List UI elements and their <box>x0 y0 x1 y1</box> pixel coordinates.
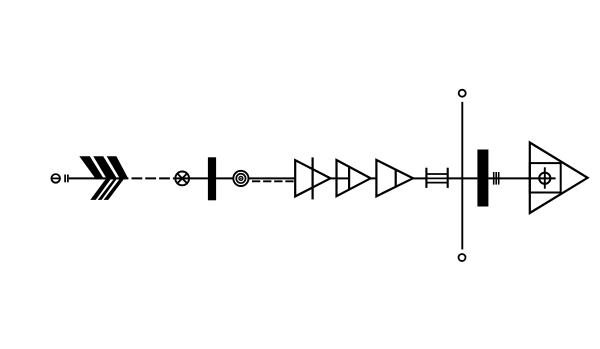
wire: filter to bar2 <box>448 177 478 179</box>
bar 2 <box>477 150 488 207</box>
detector crosshair circle <box>539 173 550 184</box>
feather chevron upper gaps <box>90 156 107 178</box>
connector J1 circle with bar <box>51 174 60 183</box>
amp3 chord <box>395 170 397 187</box>
wire: amp3 to filter <box>413 177 426 179</box>
wire: J1 to chevron tip <box>69 177 129 179</box>
filter ladder <box>426 168 447 188</box>
wire: amp1 to amp2 <box>330 177 336 179</box>
detector crosshair vertical <box>544 167 546 188</box>
lamp X-circle <box>175 172 189 186</box>
tick marks after J1 <box>65 175 68 183</box>
top node circle <box>459 90 466 97</box>
detector big triangle <box>530 143 588 214</box>
dashed wire under: rings to amp1 <box>252 180 295 182</box>
bottom node circle <box>459 254 466 261</box>
wire: amp2 to amp3 <box>371 177 377 179</box>
amp2 internal wire <box>337 177 350 179</box>
amp triangle 1 <box>295 160 330 196</box>
wire: through lamp to slit bar <box>175 177 208 179</box>
amp1 vertical bar <box>312 157 314 199</box>
amp triangle 2 <box>337 160 371 196</box>
wire: rings to amp1 <box>248 177 295 179</box>
dashed wire: chevron to lamp <box>132 177 175 179</box>
hatch marks after bar2 <box>494 172 499 185</box>
vertical plane line <box>461 102 463 250</box>
target concentric rings <box>233 171 248 186</box>
feather chevron upper mass <box>79 156 128 179</box>
detector square <box>530 163 561 192</box>
wire: bar1 to target rings <box>216 177 233 179</box>
slit bar 1 <box>208 157 216 200</box>
amp triangle 3 <box>376 160 413 196</box>
wire: bar2 to detector crosshair <box>488 177 555 179</box>
feather chevron lower gaps <box>96 179 114 200</box>
amp2 chord <box>348 167 350 190</box>
feather chevron lower mass <box>90 179 124 200</box>
